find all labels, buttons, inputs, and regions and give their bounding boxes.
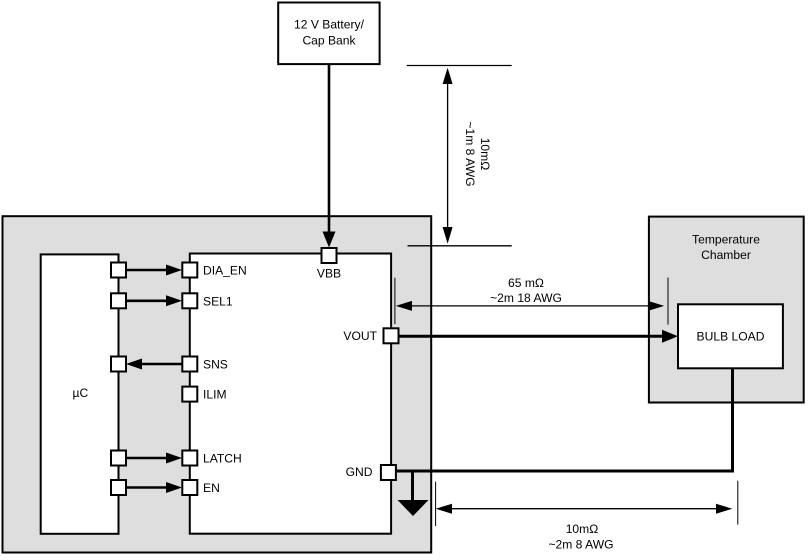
ECU gray enclosure box bbox=[3, 216, 432, 552]
dimension note 65 mOhm 2m 18 AWG (vout wire) bbox=[395, 276, 668, 325]
pin GND bbox=[346, 465, 396, 480]
svg-text:VBB: VBB bbox=[317, 267, 341, 281]
wire uC to DIA_EN bbox=[126, 265, 182, 276]
pin SNS on uC bbox=[111, 357, 126, 372]
svg-text:Cap Bank: Cap Bank bbox=[302, 34, 356, 48]
pin VOUT bbox=[343, 328, 398, 343]
ground bbox=[398, 471, 429, 516]
bulb load box bbox=[678, 304, 783, 368]
svg-text:µC: µC bbox=[73, 386, 89, 400]
svg-text:SNS: SNS bbox=[203, 358, 228, 372]
pin LATCH on U1 bbox=[182, 451, 241, 466]
svg-text:DIA_EN: DIA_EN bbox=[203, 264, 247, 278]
wire uC to SEL1 bbox=[126, 295, 182, 306]
wire VOUT to bulb load bbox=[399, 330, 679, 343]
pin ILIM on U1 bbox=[182, 387, 226, 402]
svg-text:Temperature: Temperature bbox=[692, 233, 760, 247]
microcontroller box uC bbox=[41, 254, 119, 533]
svg-text:GND: GND bbox=[346, 465, 373, 479]
svg-text:~2m 18 AWG: ~2m 18 AWG bbox=[490, 291, 562, 305]
svg-text:VOUT: VOUT bbox=[343, 329, 377, 343]
wire battery to VBB bbox=[323, 64, 336, 248]
pin EN on U1 bbox=[182, 480, 220, 495]
svg-text:~2m 8 AWG: ~2m 8 AWG bbox=[548, 538, 613, 552]
svg-text:10mΩ: 10mΩ bbox=[478, 138, 492, 171]
svg-text:EN: EN bbox=[203, 481, 220, 495]
svg-text:65 mΩ: 65 mΩ bbox=[508, 276, 544, 290]
svg-text:Chamber: Chamber bbox=[701, 248, 751, 262]
pin VBB bbox=[317, 248, 341, 281]
svg-text:~1m 8 AWG: ~1m 8 AWG bbox=[463, 121, 477, 186]
svg-text:SEL1: SEL1 bbox=[203, 294, 233, 308]
wire uC to LATCH bbox=[126, 453, 182, 464]
temperature chamber box bbox=[649, 217, 804, 403]
wire uC to EN bbox=[126, 482, 182, 493]
pin SEL1 on uC bbox=[111, 293, 126, 308]
battery box bbox=[278, 3, 379, 65]
wire GND to bulb load return bbox=[396, 368, 732, 471]
pin DIA_EN on uC bbox=[111, 263, 126, 278]
main device box U1 bbox=[190, 254, 391, 534]
svg-text:12 V Battery/: 12 V Battery/ bbox=[294, 18, 365, 32]
svg-text:LATCH: LATCH bbox=[203, 452, 242, 466]
svg-text:BULB LOAD: BULB LOAD bbox=[697, 329, 765, 343]
dimension note 10mOhm 2m 8 AWG (gnd wire) bbox=[436, 481, 738, 552]
svg-text:ILIM: ILIM bbox=[203, 388, 227, 402]
pin LATCH on uC bbox=[111, 451, 126, 466]
wire SNS to uC bbox=[126, 359, 182, 370]
svg-text:10mΩ: 10mΩ bbox=[566, 522, 599, 536]
dimension note 10mOhm 1m 8 AWG (battery wire) bbox=[407, 66, 512, 246]
pin DIA_EN on U1 bbox=[182, 263, 246, 278]
pin SNS on U1 bbox=[182, 357, 228, 372]
pin SEL1 on U1 bbox=[182, 293, 233, 308]
pin EN on uC bbox=[111, 480, 126, 495]
